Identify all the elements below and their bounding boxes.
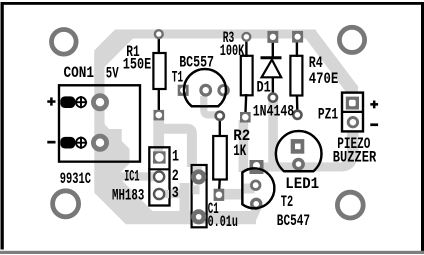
wire R3 bottom lead — [244, 94, 247, 115]
label 150E — [123, 56, 151, 74]
pad PZ1 minus (ring) — [348, 118, 357, 127]
copper trace: band T2 / LED1 / PZ1 — [264, 162, 338, 171]
label 1N4148 — [253, 102, 294, 120]
svg-text:R4: R4 — [309, 54, 323, 72]
transistor T2 outline restroke — [242, 168, 274, 208]
label R4 — [309, 54, 323, 72]
svg-text:IC1: IC1 — [124, 168, 139, 186]
trace patch inside C1 left middle — [193, 185, 200, 194]
svg-text:5V: 5V — [106, 64, 119, 82]
trace patch inside C1 bottom — [193, 212, 206, 225]
copper trace: D1 pad down — [268, 100, 278, 163]
label T1 — [172, 68, 183, 86]
svg-text:150E: 150E — [123, 56, 151, 74]
mounting hole bottom-left — [53, 191, 79, 217]
connector CON1 body outline restroke — [59, 85, 140, 161]
pad PZ1 plus (square) — [346, 97, 359, 110]
pad C1 top (ring) — [194, 172, 204, 182]
svg-text:BC547: BC547 — [277, 212, 310, 230]
transistor T2 outline fill — [242, 168, 274, 208]
svg-text:BC557: BC557 — [179, 54, 214, 72]
wire R1 bottom lead — [158, 88, 160, 116]
connector PZ1 body — [342, 93, 363, 132]
copper trace: band rise to T2 emitter — [251, 208, 258, 222]
label IC1 — [124, 168, 139, 186]
label C1 — [208, 200, 219, 218]
svg-text:2: 2 — [172, 167, 179, 185]
copper trace: R1 pad down to IC1 pin1 — [153, 119, 164, 147]
svg-text:1K: 1K — [233, 142, 246, 160]
pad R3 top (ring) — [243, 33, 251, 41]
board frame right — [421, 2, 424, 252]
transistor T1 outline fill — [184, 69, 226, 106]
pad R2 bottom (square) — [214, 189, 225, 201]
label plus PZ1 — [370, 101, 378, 109]
resistor R4 body — [290, 56, 302, 96]
diode D1 symbol (cathode bar on top, triangle pointing up) — [261, 58, 282, 78]
pad IC1 pin1 (square) — [153, 151, 166, 163]
pad C1 bottom (ring) — [194, 212, 204, 222]
capacitor C1 body — [192, 165, 207, 227]
LED1 outline restroke — [276, 131, 322, 171]
trace stub inside IC1 to pin2 — [151, 172, 159, 182]
svg-text:1: 1 — [172, 148, 179, 166]
label LED1 — [285, 175, 319, 193]
pad R1 top (ring) — [155, 30, 163, 38]
wire D1 cathode lead — [272, 77, 275, 98]
copper trace: stub from IC1 pin3 — [164, 189, 181, 198]
label plus CON1 — [47, 97, 55, 105]
resistor R3 body — [241, 56, 253, 96]
pad IC1 pin2 (ring) — [154, 172, 164, 182]
svg-text:BUZZER: BUZZER — [333, 149, 377, 167]
wire R1 top lead — [158, 34, 160, 54]
pad R2 top (dark ring) — [216, 112, 224, 120]
svg-text:9931C: 9931C — [60, 170, 91, 188]
pad LED1 cathode (ring) — [294, 160, 303, 169]
label 1K — [233, 142, 246, 160]
mounting hole top-left — [52, 30, 77, 55]
copper pour: CON1 ground area with diagonal swath and bottom band — [94, 54, 256, 224]
pad R4 top (square) — [292, 31, 303, 43]
label R2 — [233, 127, 250, 145]
label T2 — [281, 193, 293, 211]
label R3 — [223, 29, 235, 47]
wire D1 anode lead — [272, 38, 274, 58]
wire R2 bottom lead — [218, 179, 221, 195]
label 9931C — [60, 170, 91, 188]
svg-text:T2: T2 — [281, 193, 293, 211]
label PZ1 — [318, 106, 338, 124]
CON1 terminal 2 screw — [75, 137, 87, 149]
svg-text:470E: 470E — [309, 70, 339, 88]
wire R4 bottom lead — [296, 95, 299, 115]
label CON1 — [64, 64, 95, 82]
copper trace: branch to C1 top — [163, 129, 192, 167]
pad D1 bottom (dark ring) — [269, 94, 277, 102]
svg-text:PZ1: PZ1 — [318, 106, 338, 124]
pad CON1 top (ring) — [93, 96, 106, 109]
pad T1 collector (ring) — [219, 86, 228, 95]
pad T1 base (ring) — [201, 85, 211, 95]
resistor R2 body — [213, 136, 227, 180]
label BUZZER — [333, 149, 377, 167]
IC1 header body — [148, 147, 170, 205]
trace stub inside IC1 from pin3 — [158, 190, 169, 198]
wire R4 top lead — [296, 37, 298, 57]
svg-text:D1: D1 — [257, 78, 271, 96]
CON1 terminal 1 blob — [60, 96, 75, 108]
label pin 2 — [172, 167, 179, 185]
label pin 1 — [172, 148, 179, 166]
trace stub inside T2 — [243, 184, 255, 194]
label D1 — [257, 78, 271, 96]
connector CON1 body — [59, 85, 140, 161]
label BC547 — [277, 212, 310, 230]
wire R2 top lead — [219, 116, 221, 137]
wire R3 top lead — [245, 37, 247, 57]
copper trace inside CON1 — [94, 87, 129, 161]
copper trace: pin3 branch down to band — [180, 183, 190, 213]
label MH183 — [112, 187, 144, 205]
CON1 terminal 2 blob — [60, 137, 75, 149]
pad D1 top (square) — [267, 31, 278, 43]
label R1 — [126, 43, 139, 61]
svg-text:0.01u: 0.01u — [208, 213, 238, 231]
pad CON1 bottom (ring) — [93, 136, 106, 149]
LED1 outline fill — [276, 131, 322, 171]
copper trace: stub into IC1 pin2 — [110, 172, 150, 180]
trace patch inside C1 top — [193, 166, 202, 172]
pad T2 collector (square) — [250, 160, 264, 174]
svg-text:3: 3 — [172, 184, 179, 202]
copper trace: R2 pad to T2 base — [224, 189, 257, 200]
svg-text:T1: T1 — [172, 68, 183, 86]
svg-text:LED1: LED1 — [285, 175, 319, 193]
resistor R1 body — [153, 53, 165, 89]
svg-text:1N4148: 1N4148 — [253, 102, 294, 120]
svg-text:CON1: CON1 — [64, 64, 95, 82]
svg-text:MH183: MH183 — [112, 187, 144, 205]
label BC557 — [179, 54, 214, 72]
pad IC1 pin3 (ring) — [154, 189, 164, 199]
board frame bottom — [0, 251, 424, 254]
label 470E — [309, 70, 339, 88]
trace stub inside IC1 to pin1 — [154, 149, 163, 154]
label 100K — [220, 42, 245, 60]
board frame left — [1, 2, 4, 250]
copper trace: R3 pad down to T2 — [239, 120, 249, 172]
pad T2 emitter (ring) — [252, 199, 261, 208]
transistor T1 outline restroke — [184, 69, 226, 106]
label minus PZ1 — [370, 123, 378, 126]
pad LED1 anode (square) — [291, 139, 305, 154]
pad R4 bottom (dark ring) — [293, 111, 301, 119]
svg-text:100K: 100K — [220, 42, 245, 60]
pad T2 base (ring) — [251, 181, 260, 190]
pad T1 emitter (square) — [178, 85, 189, 96]
CON1 terminal 1 screw — [75, 96, 87, 108]
mounting hole bottom-right — [337, 192, 363, 218]
label 0.01u — [208, 213, 238, 231]
copper trace: diagonal to PZ1 — [310, 34, 358, 96]
label 5V — [106, 64, 119, 82]
copper trace: top horizontal band with diagonal drop to CON1 — [94, 30, 316, 81]
board frame top — [1, 2, 424, 5]
pad R1 bottom (square) — [154, 110, 165, 121]
copper trace: T1 base down to R2 top — [204, 96, 217, 115]
label PIEZO — [337, 135, 370, 153]
label pin 3 — [172, 184, 179, 202]
mounting hole top-right — [339, 27, 364, 52]
copper trace: PZ1 down stub and corner to LED1 band — [336, 131, 359, 167]
label minus CON1 — [47, 141, 55, 144]
pad R3 bottom (square) — [240, 112, 251, 123]
